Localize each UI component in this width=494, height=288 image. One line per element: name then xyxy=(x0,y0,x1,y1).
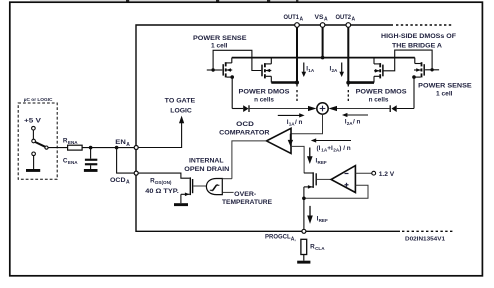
current arrow I1A xyxy=(302,63,315,78)
transistor power DMOS A2 gate bus xyxy=(383,50,432,71)
transistor sense cell A2 (right, mirrored) xyxy=(412,58,439,79)
terminal OUT1A xyxy=(295,23,300,28)
ground (switch) xyxy=(26,169,40,172)
svg-text:(I: (I xyxy=(317,145,321,152)
ground (RCLA) xyxy=(297,261,310,264)
current arrow IREF upper xyxy=(307,148,327,166)
svg-text:OVER-: OVER- xyxy=(234,191,256,198)
svg-text:1 cell: 1 cell xyxy=(436,90,453,97)
switch SW1 xyxy=(32,126,49,169)
terminal ENA xyxy=(134,146,138,150)
svg-text:REF: REF xyxy=(319,218,328,223)
wire source rail half-bridge 2 xyxy=(348,81,374,84)
svg-text:A: A xyxy=(352,17,356,23)
svg-text:1A: 1A xyxy=(308,68,315,73)
svg-text:OUT2: OUT2 xyxy=(336,14,352,21)
ground (open drain source) xyxy=(174,203,188,206)
wire comparator lower input xyxy=(291,146,304,173)
svg-text:A: A xyxy=(324,17,328,23)
wire op-amp minus input to 1.2V xyxy=(355,172,371,174)
svg-text:POWER DMOS: POWER DMOS xyxy=(239,88,290,95)
resistor RCLA xyxy=(301,239,307,254)
IC inner box outline xyxy=(136,25,400,231)
svg-text:+5 V: +5 V xyxy=(24,118,42,125)
label RENA xyxy=(63,138,78,146)
wire VSA bus xyxy=(322,27,324,57)
wire source rail half-bridge 1 xyxy=(271,81,297,84)
wire switch to RENA xyxy=(48,147,67,149)
svg-text:OCD: OCD xyxy=(236,121,254,128)
svg-text:THE BRIDGE A: THE BRIDGE A xyxy=(392,42,442,49)
svg-text:2A: 2A xyxy=(332,68,339,73)
wire to diode D2 xyxy=(397,108,414,110)
svg-text:POWER DMOS: POWER DMOS xyxy=(356,88,407,95)
svg-text:A: A xyxy=(300,17,304,23)
terminal VSA xyxy=(320,23,325,28)
svg-text:VS: VS xyxy=(315,14,324,21)
schmitt trigger gate xyxy=(206,179,222,195)
resistor RENA xyxy=(68,145,83,150)
terminal OCDA xyxy=(134,171,138,175)
svg-text:ENA: ENA xyxy=(68,160,78,165)
svg-text:INTERNAL: INTERNAL xyxy=(189,158,224,165)
terminal 1.2V xyxy=(372,171,376,175)
op-amp error amplifier xyxy=(331,166,355,193)
current arrow into comparator node xyxy=(288,134,293,147)
wire diode D2 to summing node with arrowhead xyxy=(329,106,391,111)
wire to diode D1 xyxy=(232,108,243,110)
wire op-amp plus input feedback xyxy=(304,185,368,198)
svg-text:LOGIC: LOGIC xyxy=(170,108,192,115)
svg-text:HIGH-SIDE DMOSs OF: HIGH-SIDE DMOSs OF xyxy=(381,33,456,40)
diode D1 xyxy=(243,105,249,112)
svg-text:OUT1: OUT1 xyxy=(284,14,300,21)
node OUT1A source junction xyxy=(295,81,299,85)
svg-text:1 cell: 1 cell xyxy=(211,42,228,49)
transistor sense cell A1 (1 cell, left) xyxy=(207,58,234,79)
wire summing node to comparator input xyxy=(291,114,323,134)
svg-text:POWER SENSE: POWER SENSE xyxy=(193,35,247,42)
label ENA xyxy=(115,139,130,148)
svg-text:POWER SENSE: POWER SENSE xyxy=(418,83,472,90)
wire OUT2A bus xyxy=(347,27,349,82)
dashed continuation of bottom edge xyxy=(402,230,453,232)
wire VS rail xyxy=(232,57,415,59)
label RCLA xyxy=(310,244,325,252)
svg-text:µC or LOGIC: µC or LOGIC xyxy=(24,97,53,102)
wire sense A2 source down xyxy=(413,77,415,108)
dashed continuation of top edge xyxy=(396,24,452,26)
wire node to PROGCLA xyxy=(303,198,305,229)
wire OUT1A bus stub + dashed continuation xyxy=(296,83,298,87)
svg-text:A: A xyxy=(126,180,130,186)
label PROGCLA xyxy=(265,234,296,243)
svg-text:OCD: OCD xyxy=(110,177,126,184)
wire OUT2A bus stub + dashed continuation xyxy=(347,83,349,87)
node OUT2A source junction xyxy=(346,81,350,85)
label OCDA xyxy=(110,177,130,186)
transistor open drain M2 xyxy=(181,177,207,203)
current arrow (I1A+I2A)/n xyxy=(311,138,351,152)
svg-text:1.2 V: 1.2 V xyxy=(379,171,395,178)
svg-text:OPEN DRAIN: OPEN DRAIN xyxy=(184,166,229,173)
current arrow I2A/n xyxy=(342,113,368,126)
svg-text:EN: EN xyxy=(115,139,126,146)
node CENA junction xyxy=(89,146,93,150)
capacitor CENA xyxy=(85,148,97,169)
diode D2 xyxy=(390,105,397,112)
current arrow I1A/n xyxy=(278,113,305,126)
svg-text:/ n: / n xyxy=(353,118,361,125)
svg-text:REF: REF xyxy=(318,160,327,165)
wire comparator output to schmitt xyxy=(232,141,267,179)
wire schmitt top input from comparator xyxy=(222,178,232,180)
wire junction down to OCDA xyxy=(117,148,135,174)
svg-text:A: A xyxy=(126,142,130,148)
svg-text:DS(ON): DS(ON) xyxy=(155,180,172,185)
svg-text:TEMPERATURE: TEMPERATURE xyxy=(222,199,272,206)
label CENA xyxy=(63,157,78,165)
svg-text:) / n: ) / n xyxy=(339,145,350,152)
label RDS(ON) xyxy=(150,177,172,185)
op-amp OCD comparator xyxy=(267,128,292,153)
current arrow I2A xyxy=(330,63,345,78)
wire RENA to ENA xyxy=(82,147,134,149)
wire RCLA to ground xyxy=(303,255,305,261)
wire OUT1A bus xyxy=(296,27,298,82)
current arrow IREF lower xyxy=(307,206,328,224)
terminal PROGCLA xyxy=(302,229,306,233)
ground (CENA) xyxy=(84,169,98,172)
summing node xyxy=(317,103,328,114)
transistor power DMOS A2 (right, mirrored) xyxy=(374,58,383,83)
transistor power DMOS A1 (left) xyxy=(262,58,271,83)
wire schmitt bottom input over-temperature xyxy=(222,191,233,193)
svg-text:n cells: n cells xyxy=(254,97,274,104)
terminal OUT2A xyxy=(346,23,351,28)
svg-text:+I: +I xyxy=(327,145,333,152)
svg-text:D02IN1354V1: D02IN1354V1 xyxy=(405,236,445,242)
node ENA/OCDA tie junction xyxy=(115,146,119,150)
dashed box uC or LOGIC xyxy=(18,103,57,179)
svg-text:COMPARATOR: COMPARATOR xyxy=(219,129,269,136)
wire sense A1 source down xyxy=(231,77,233,108)
cropped caption descenders at top xyxy=(30,0,330,2)
svg-text:PROGCL: PROGCL xyxy=(265,234,291,241)
svg-text:A,: A, xyxy=(291,237,297,243)
svg-text:ENA: ENA xyxy=(68,140,78,145)
svg-text:40 Ω TYP.: 40 Ω TYP. xyxy=(145,188,179,195)
wire ENA to gate logic with arrow xyxy=(138,116,184,148)
transistor current mirror M1 xyxy=(304,172,331,198)
node RCLA top junction xyxy=(302,197,306,201)
svg-text:TO GATE: TO GATE xyxy=(165,98,196,105)
wire diode D1 to summing node with arrowhead xyxy=(249,106,317,111)
transistor sense cell A1 gate bus xyxy=(213,50,261,70)
svg-text:n cells: n cells xyxy=(369,97,389,104)
wire OCDA to open-drain MOSFET xyxy=(138,173,189,178)
svg-text:CLA: CLA xyxy=(315,246,325,251)
node VSA junction xyxy=(321,56,325,60)
svg-text:/ n: / n xyxy=(295,119,303,126)
